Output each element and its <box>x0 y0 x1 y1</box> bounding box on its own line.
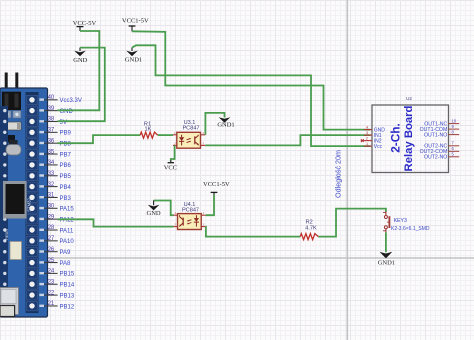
svg-text:PB14: PB14 <box>60 283 75 289</box>
optocoupler U4.1 PC847 (mirrored) <box>174 202 206 230</box>
svg-text:3: 3 <box>366 131 368 135</box>
svg-text:PB9: PB9 <box>60 131 72 137</box>
svg-text:35: 35 <box>48 149 55 155</box>
svg-text:38: 38 <box>48 117 55 123</box>
svg-text:28: 28 <box>48 225 55 231</box>
relay pin 2 IN2 <box>361 136 382 144</box>
svg-text:2-Ch.: 2-Ch. <box>388 123 402 153</box>
svg-text:PB6: PB6 <box>60 163 72 169</box>
svg-text:25: 25 <box>48 258 55 264</box>
MCU pin 38 5V <box>44 117 67 126</box>
wire R1 to U3.1 pin 1 <box>158 134 173 136</box>
svg-text:VCC-5V: VCC-5V <box>73 20 97 27</box>
ground symbol GND1 (middle) <box>217 117 234 128</box>
wire R2 to KEY3 <box>318 209 386 237</box>
MCU pin 24 PB15 <box>44 269 75 278</box>
power symbol VCC1-5V (above U4.1) <box>203 181 230 195</box>
MCU pin 21 PB12 <box>44 301 75 310</box>
relay pin 9 OUT1-COM <box>420 124 460 133</box>
MCU pin 23 PB14 <box>44 279 75 288</box>
MCU pin 28 PA11 <box>44 225 74 234</box>
svg-text:PA12: PA12 <box>60 217 75 223</box>
svg-text:STM32: STM32 <box>27 198 32 212</box>
power symbol VCC-5V <box>73 20 97 31</box>
wire U4.1 pin 3 to R2 <box>206 227 301 237</box>
svg-text:OUT1-NO: OUT1-NO <box>424 132 447 138</box>
relay pin 3 IN1 <box>364 131 382 139</box>
svg-text:2: 2 <box>366 136 368 140</box>
svg-text:37: 37 <box>48 128 55 134</box>
MCU pin 40 Vcc3.3V <box>44 95 82 104</box>
relay pin 5 OUT2-NO <box>424 152 459 161</box>
wire GND to pin 38 <box>58 48 105 122</box>
svg-text:PB13: PB13 <box>60 293 75 299</box>
svg-text:21: 21 <box>48 301 55 307</box>
MCU pin 25 PA8 <box>44 258 71 267</box>
wire VCC1-5V to relay GND pin <box>132 31 371 129</box>
relay pin 7 OUT2-NC <box>424 141 459 150</box>
microcontroller board photo (STM32 Blue Pill) <box>0 73 48 318</box>
resistor R2 4.7K <box>300 219 318 239</box>
MCU pin 27 PA10 <box>44 236 74 245</box>
svg-text:33: 33 <box>48 171 55 177</box>
svg-text:VCC: VCC <box>164 164 177 171</box>
svg-text:Vcc: Vcc <box>374 144 383 150</box>
MCU pin 30 PA15 <box>44 204 74 213</box>
wire pin36 PB8 to R1 <box>58 135 141 143</box>
wire VCC1-5V to U4.1 pin 4 <box>206 195 214 216</box>
MCU pin 39 GND <box>44 106 74 115</box>
svg-text:PA9: PA9 <box>60 250 72 256</box>
MCU pin 29 PA12 <box>44 214 74 223</box>
svg-text:24: 24 <box>48 269 55 275</box>
ground symbol GND (top left) <box>73 48 87 64</box>
svg-text:4: 4 <box>366 125 368 129</box>
wire U3.1 pin 2 to VCC <box>171 145 175 160</box>
svg-text:39: 39 <box>48 106 55 112</box>
svg-text:PA15: PA15 <box>60 207 75 213</box>
svg-text:PB5: PB5 <box>60 174 72 180</box>
MCU pin 36 PB8 <box>44 138 72 147</box>
relay pin 1 Vcc <box>364 142 383 150</box>
MCU pin 22 PB13 <box>44 290 75 299</box>
svg-text:R2: R2 <box>306 219 313 225</box>
svg-text:OUT2-NO: OUT2-NO <box>424 155 447 161</box>
svg-text:10: 10 <box>452 118 457 123</box>
power symbol VCC (below U3.1) <box>164 160 177 171</box>
ground symbol GND (near U4.1) <box>147 201 161 218</box>
svg-text:U2: U2 <box>406 96 412 101</box>
ground symbol GND1 (top) <box>125 48 142 64</box>
relay pin 10 OUT1-NC <box>424 118 459 127</box>
wire GND1 to relay Vcc pin <box>132 45 371 146</box>
power symbol VCC1-5V (top) <box>122 18 149 32</box>
svg-text:KEY3: KEY3 <box>394 218 407 224</box>
MCU pin 37 PB9 <box>44 128 72 137</box>
relay pin 8 OUT1-NO <box>424 129 459 138</box>
svg-text:PA8: PA8 <box>60 261 72 267</box>
MCU pin 32 PB4 <box>44 182 72 191</box>
svg-text:1: 1 <box>366 142 368 146</box>
svg-text:32: 32 <box>48 182 55 188</box>
svg-text:GND: GND <box>147 210 161 217</box>
svg-text:Vcc3.3V: Vcc3.3V <box>60 98 82 104</box>
svg-text:Relay Board: Relay Board <box>403 105 415 171</box>
MCU pin 26 PA9 <box>44 247 71 256</box>
relay pin 4 GND <box>364 125 386 133</box>
svg-text:22: 22 <box>48 290 55 296</box>
pushbutton KEY3 <box>383 212 430 233</box>
svg-text:23: 23 <box>48 279 55 285</box>
svg-text:PB4: PB4 <box>60 185 72 191</box>
svg-text:PB3: PB3 <box>60 196 72 202</box>
svg-text:RESET: RESET <box>5 228 9 239</box>
svg-text:K2-3.6×6.1_SMD: K2-3.6×6.1_SMD <box>391 226 430 232</box>
svg-text:PA11: PA11 <box>60 228 74 234</box>
svg-text:4.7K: 4.7K <box>305 226 317 232</box>
wire KEY3 to GND1 <box>385 232 387 252</box>
MCU pin 33 PB5 <box>44 171 72 180</box>
sheet divider horizontal <box>0 257 474 259</box>
relay pin 6 OUT2-COM <box>420 146 460 155</box>
svg-text:34: 34 <box>48 160 55 166</box>
svg-text:GND1: GND1 <box>378 259 395 266</box>
svg-text:Odległość 20m: Odległość 20m <box>334 150 343 198</box>
svg-text:26: 26 <box>48 247 55 253</box>
svg-text:30: 30 <box>48 204 55 210</box>
MCU pin 34 PB6 <box>44 160 72 169</box>
optocoupler U3.1 PC847 <box>173 120 205 148</box>
wire pin29 PA12 to U4.1 pin 2 <box>58 219 174 226</box>
svg-text:36: 36 <box>48 138 55 144</box>
wire U3.1 pin 4 to GND1 <box>205 113 224 135</box>
svg-text:31: 31 <box>48 193 55 199</box>
wire U3.1 pin 3 to relay IN1 <box>205 135 370 145</box>
svg-text:GND1: GND1 <box>125 57 142 64</box>
svg-text:29: 29 <box>48 214 55 220</box>
svg-text:PB15: PB15 <box>60 272 75 278</box>
svg-text:27: 27 <box>48 236 55 242</box>
svg-text:VCC1-5V: VCC1-5V <box>122 18 149 25</box>
wire VCC-5V to pin 39 <box>58 31 100 110</box>
svg-text:PB12: PB12 <box>60 304 75 310</box>
svg-text:PA10: PA10 <box>60 239 75 245</box>
resistor R1 1K <box>140 121 158 138</box>
svg-text:PC847: PC847 <box>182 126 199 132</box>
svg-text:GND: GND <box>73 57 87 64</box>
wire GND to U4.1 pin 1 <box>154 201 174 216</box>
relay board U2 body <box>372 96 449 173</box>
svg-text:GND1: GND1 <box>217 121 234 128</box>
svg-text:VCC1-5V: VCC1-5V <box>203 181 230 188</box>
MCU pin 35 PB7 <box>44 149 72 158</box>
sheet divider vertical <box>346 0 348 340</box>
svg-text:PB7: PB7 <box>60 152 72 158</box>
MCU pin 31 PB3 <box>44 193 72 202</box>
svg-text:40: 40 <box>48 95 55 101</box>
ground symbol GND1 (bottom) <box>378 252 395 267</box>
svg-text:PC847: PC847 <box>182 207 199 213</box>
